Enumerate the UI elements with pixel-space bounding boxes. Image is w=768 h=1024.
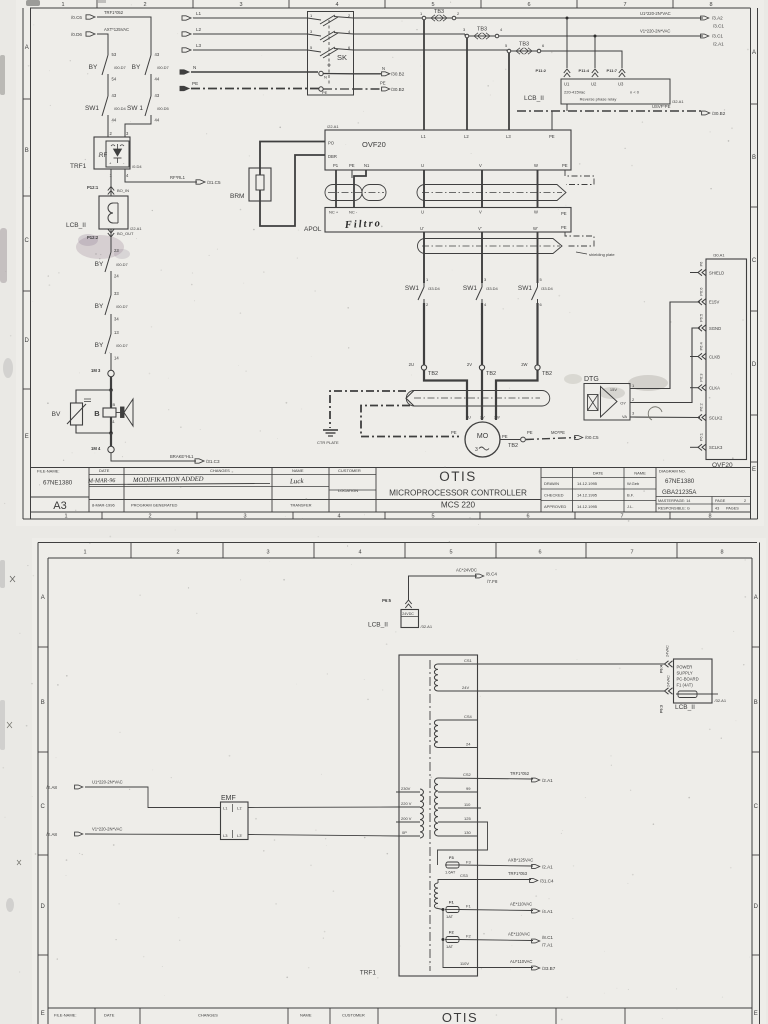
sheet1 top column ticks (96, 0, 98, 8)
scan smudge left edge dark streaks (0, 55, 5, 95)
svg-text:1.6AT: 1.6AT (445, 870, 456, 875)
tap 110 (438, 807, 481, 809)
svg-text:/00.D5: /00.D5 (157, 106, 170, 111)
svg-text:C: C (25, 238, 30, 244)
svg-text:99: 99 (466, 786, 471, 791)
sheet1 left row ticks (23, 98, 31, 100)
svg-text:/30.A1: /30.A1 (713, 253, 725, 258)
svg-text:PE: PE (349, 163, 355, 168)
svg-text:53: 53 (112, 52, 117, 57)
svg-text:/31.C5: /31.C5 (207, 180, 221, 185)
svg-text:U1: U1 (564, 82, 570, 87)
sheet1 right row ticks (751, 103, 758, 105)
svg-text:SCLK3: SCLK3 (709, 445, 723, 450)
svg-text:2W: 2W (521, 362, 527, 367)
wire BY to SW1 left (107, 78, 109, 92)
shield cable centerline right dash-dot (422, 192, 562, 194)
transformer core dash-dot (429, 660, 431, 971)
svg-text:BY: BY (95, 261, 104, 268)
svg-text:/2.A8: /2.A8 (46, 832, 57, 837)
wire (110, 275, 112, 291)
svg-text:V: V (479, 210, 482, 215)
svg-text:E15V: E15V (709, 300, 719, 305)
svg-text:BY: BY (89, 64, 98, 71)
wire N to SK contact (191, 71, 318, 73)
svg-text:BRAKE*HL1: BRAKE*HL1 (170, 454, 194, 459)
svg-text:2: 2 (148, 514, 151, 520)
svg-text:/0.D4: /0.D4 (132, 164, 142, 169)
svg-text:PAGES: PAGES (726, 507, 739, 511)
svg-text:44: 44 (155, 118, 160, 123)
svg-text:P12:2: P12:2 (87, 235, 99, 240)
svg-text:U3: U3 (618, 82, 624, 87)
svg-text:AE*110VAC: AE*110VAC (510, 902, 532, 907)
svg-text:MODIFIKATION ADDED: MODIFIKATION ADDED (132, 476, 204, 484)
svg-text:RF: RF (99, 152, 107, 159)
sheet1 border frame (30, 7, 751, 9)
svg-text:MO: MO (477, 433, 489, 440)
svg-text:220-415Vac: 220-415Vac (564, 90, 585, 95)
wire EMF L3' to primary 0P (248, 835, 399, 837)
SK PE contact (319, 87, 323, 91)
svg-text:SW1: SW1 (463, 285, 477, 292)
svg-text:L1: L1 (196, 11, 202, 16)
transformer secondary winding CS4-24 (434, 720, 438, 748)
svg-text:/30.B2: /30.B2 (391, 72, 405, 77)
svg-text:24VDC: 24VDC (402, 612, 414, 616)
svg-text:4: 4 (335, 2, 338, 8)
svg-text:/00.C5: /00.C5 (585, 435, 599, 440)
svg-text:V: V (479, 163, 482, 168)
svg-text:/8.C4: /8.C4 (486, 572, 497, 577)
wire DTG 15V to connector E15V (630, 302, 700, 389)
dash-dot PE wire under relay to /30.B2 (566, 104, 568, 111)
dash-dot PE wire to ground (330, 391, 406, 428)
svg-text:CS2: CS2 (463, 772, 472, 777)
svg-text:F2: F2 (449, 930, 454, 935)
svg-text:PE: PE (561, 211, 567, 216)
svg-text:OY: OY (620, 401, 626, 406)
svg-text:/30.B2: /30.B2 (391, 87, 405, 92)
svg-text:CUSTOMER: CUSTOMER (342, 1013, 365, 1018)
coil LCB_II box (99, 196, 128, 229)
svg-text:24: 24 (466, 742, 471, 747)
pen marks sheet2 margin (10, 576, 15, 582)
svg-text:33: 33 (114, 291, 119, 296)
connector OVF20 box right (706, 259, 747, 460)
svg-text:2: 2 (744, 499, 746, 503)
svg-text:PO: PO (328, 141, 335, 146)
svg-text:3: 3 (266, 550, 269, 556)
phase branch wire L3 down to OVF20 (508, 53, 510, 130)
svg-text:TB3: TB3 (434, 9, 444, 15)
svg-text:4: 4 (337, 514, 340, 520)
svg-text:2U: 2U (466, 416, 471, 420)
svg-text:FILE-NAME:: FILE-NAME: (54, 1013, 76, 1018)
sheet1 bottom column ticks (101, 512, 103, 519)
svg-text:/00.D7: /00.D7 (114, 65, 127, 70)
wire junction down to 110V out (443, 940, 533, 968)
sheet2 title block top line (48, 1007, 752, 1009)
wire TRF1*052 to BY contact (97, 17, 151, 51)
svg-text:E: E (25, 434, 29, 440)
transformer secondary winding CS2 taps (434, 778, 438, 836)
svg-text:B: B (752, 155, 756, 161)
svg-text:/7.A1: /7.A1 (542, 943, 553, 948)
svg-text:P1: P1 (333, 163, 339, 168)
svg-text:GBA21235A: GBA21235A (662, 489, 697, 496)
svg-text:P6:4: P6:4 (699, 341, 704, 350)
svg-text:44: 44 (155, 77, 160, 82)
svg-text:BRM: BRM (230, 193, 244, 200)
svg-text:Reverse phase relay: Reverse phase relay (580, 97, 617, 102)
svg-text:/0.D6: /0.D6 (71, 32, 82, 37)
bold wire P1 to APOL NC+ (335, 170, 337, 208)
wire CS1 to power supply (478, 663, 665, 665)
input arrow N bold (180, 70, 189, 74)
svg-text:TRF1*052: TRF1*052 (104, 10, 124, 15)
wire TRF1 pin1 down to LCB_II (110, 169, 112, 196)
input arrow L3 (182, 48, 191, 52)
svg-text:43: 43 (715, 507, 719, 511)
svg-text:PAGE: PAGE (715, 499, 726, 503)
svg-text:OVF20: OVF20 (362, 140, 386, 149)
wire PE stub OVF20 (351, 170, 353, 178)
wire SW1 to TRF1 pin2 (107, 119, 109, 137)
svg-text:2V: 2V (480, 416, 485, 420)
svg-text:/00.D4: /00.D4 (114, 106, 127, 111)
svg-text:L1: L1 (421, 134, 426, 139)
svg-text:/2.A8: /2.A8 (46, 785, 57, 790)
svg-text:L2: L2 (464, 134, 469, 139)
svg-text:/2.A1: /2.A1 (542, 778, 553, 783)
svg-text:N: N (193, 65, 196, 70)
svg-text:AE*110VAC: AE*110VAC (508, 932, 530, 937)
svg-text:DATE: DATE (99, 468, 110, 473)
shield pigtail APOL PE upper (565, 232, 594, 246)
svg-text:U: U (421, 210, 424, 215)
svg-text:L3: L3 (223, 833, 228, 838)
wire F1 to AE*110VAC arrow (459, 910, 533, 911)
svg-text:4: 4 (358, 550, 361, 556)
svg-text:/2.A1: /2.A1 (542, 865, 553, 870)
svg-text:2V: 2V (467, 362, 472, 367)
svg-text:/00.D7: /00.D7 (116, 343, 129, 348)
svg-text:7: 7 (630, 550, 633, 556)
transformer primary winding taps (420, 789, 424, 838)
dash-dot wire motor PE out (526, 438, 576, 440)
input arrow L2 (182, 32, 191, 36)
drive OVF20 box (325, 130, 571, 170)
svg-text:E: E (41, 1011, 45, 1017)
svg-text:RF*RL1: RF*RL1 (170, 175, 186, 180)
svg-text:SUPPLY: SUPPLY (677, 671, 693, 676)
svg-text:/32.A1: /32.A1 (715, 698, 727, 703)
svg-text:A: A (752, 50, 756, 56)
svg-text:6: 6 (526, 514, 529, 520)
svg-text:SHIELD: SHIELD (709, 270, 724, 275)
power tap LCB_II 24VDC box (401, 610, 419, 628)
svg-text:U: U (421, 163, 424, 168)
wire LCB_II down to BY chain (110, 229, 112, 248)
wire DTG VA to connector SCLK2 (630, 416, 700, 419)
svg-text:AXB*125VAC: AXB*125VAC (508, 858, 533, 863)
svg-text:RESPONSIBLE: G: RESPONSIBLE: G (658, 507, 690, 511)
svg-text:PE: PE (527, 430, 533, 435)
svg-text:BY: BY (95, 303, 104, 310)
svg-text:2U: 2U (409, 362, 414, 367)
svg-text:C: C (41, 804, 46, 810)
brake coil B (110, 390, 112, 408)
motor MO circle (465, 422, 500, 457)
svg-text:8: 8 (709, 2, 712, 8)
svg-text:14.12.1995: 14.12.1995 (577, 493, 598, 498)
svg-text:2W: 2W (494, 416, 500, 420)
bold wire W to APOL (537, 170, 539, 208)
node brake bottom (109, 431, 113, 435)
wire L2 to SK (193, 33, 308, 35)
svg-text:/00.D7: /00.D7 (157, 65, 170, 70)
svg-text:1: 1 (64, 514, 67, 520)
svg-text:MASTERPAGE: 14: MASTERPAGE: 14 (658, 499, 690, 503)
svg-text:LCB_II: LCB_II (675, 704, 695, 711)
svg-text:Luck: Luck (289, 477, 305, 486)
svg-text:24: 24 (114, 274, 119, 279)
svg-text:P11:7: P11:7 (607, 68, 618, 73)
svg-text:SGND: SGND (709, 326, 721, 331)
filter APOL box (325, 208, 571, 233)
wire PE out to /30.B2 dash-dot (354, 88, 382, 90)
shield pigtail OVF20 PE (565, 170, 594, 185)
svg-text:NC -: NC - (349, 210, 358, 215)
bold wire to terminal 1M4 (110, 433, 112, 446)
svg-text:W: W (534, 163, 538, 168)
svg-text:SW1: SW1 (518, 285, 532, 292)
svg-text:EMF: EMF (221, 795, 236, 802)
transformer secondary winding CS1-24V (434, 664, 438, 691)
wire L2 SK to TB3 fuse2 (354, 33, 466, 35)
svg-text:/33.D4: /33.D4 (486, 286, 499, 291)
svg-text:CS4: CS4 (464, 714, 473, 719)
wire BY to SW1 right (150, 78, 152, 92)
label shielding plate (576, 252, 587, 254)
svg-text:N: N (324, 75, 327, 80)
svg-text:B: B (94, 409, 100, 418)
svg-text:P6:5: P6:5 (382, 598, 392, 603)
svg-text:43: 43 (155, 52, 160, 57)
primary tap 230V (396, 791, 420, 793)
svg-text:FILE-NAME:: FILE-NAME: (37, 469, 59, 474)
svg-text:CS3: CS3 (460, 873, 469, 878)
svg-text:TB2: TB2 (486, 371, 496, 377)
input arrow PE bold dash-dot (180, 86, 189, 90)
svg-text:C: C (752, 258, 757, 264)
svg-text:F1 (4AT): F1 (4AT) (677, 683, 694, 688)
svg-text:P6:3: P6:3 (699, 373, 704, 382)
svg-text:CLKA: CLKA (709, 386, 720, 391)
svg-text:6: 6 (538, 550, 541, 556)
svg-text:200 V: 200 V (401, 816, 412, 821)
svg-text:1: 1 (61, 2, 64, 8)
svg-text:23: 23 (114, 248, 119, 253)
svg-text:TRF1: TRF1 (70, 163, 87, 170)
svg-text:43: 43 (155, 93, 160, 98)
svg-text:V1*220-2N*VAC: V1*220-2N*VAC (640, 29, 670, 34)
svg-text:230V: 230V (401, 786, 411, 791)
svg-text:V1*220-2N*VAC: V1*220-2N*VAC (92, 827, 122, 832)
svg-text:MO*PE: MO*PE (551, 430, 565, 435)
tap 99 (438, 791, 478, 793)
wire brake to BRAKE*HL1 arrow (111, 453, 196, 461)
svg-text:N1: N1 (364, 163, 370, 168)
relay LCB_II reverse phase relay box (561, 79, 670, 104)
svg-text:W.Geb: W.Geb (627, 481, 640, 486)
svg-text:0P: 0P (402, 830, 407, 835)
shield cable racetrack right group (417, 185, 566, 201)
svg-text:67NE1380: 67NE1380 (665, 478, 695, 485)
svg-text:SW1: SW1 (405, 285, 419, 292)
svg-text:B: B (41, 700, 45, 706)
svg-text:TRF1: TRF1 (360, 970, 377, 977)
svg-text:D: D (752, 362, 757, 368)
svg-text:TB2: TB2 (542, 371, 552, 377)
svg-text:PROGRAM GENERATED: PROGRAM GENERATED (131, 503, 177, 508)
bold wire U to APOL (423, 170, 425, 208)
wire L1 to SK (193, 17, 308, 19)
wire L1 SK to TB3 fuse1 (354, 17, 423, 19)
svg-text:/7.F8: /7.F8 (487, 579, 498, 584)
bold wire SW1 V to TB2 (481, 303, 483, 365)
svg-text:/31.C3: /31.C3 (206, 459, 220, 464)
svg-text:shielding plate: shielding plate (589, 252, 615, 257)
wire (110, 318, 112, 330)
rectifier RF inner bridge (106, 141, 129, 167)
transformer secondary winding CS3 (434, 883, 438, 909)
svg-text:PE: PE (380, 81, 386, 86)
wire fuse1 to right edge U1*220 (456, 17, 703, 19)
tap 130 (438, 835, 478, 837)
svg-text:F3: F3 (449, 855, 454, 860)
svg-text:E: E (754, 1011, 758, 1017)
svg-text:SCLK2: SCLK2 (709, 415, 723, 420)
svg-text:DBR: DBR (328, 154, 337, 159)
wire N out to /30.B2 (354, 73, 382, 75)
svg-text:43: 43 (112, 93, 117, 98)
svg-text:PE: PE (562, 163, 568, 168)
svg-text:14.12.1995: 14.12.1995 (577, 481, 598, 486)
wire LCB_II 24VDC up to AC*24VDC arrow (409, 576, 478, 600)
svg-text:APPROVED: APPROVED (544, 504, 566, 509)
svg-text:/32.A1: /32.A1 (421, 624, 433, 629)
sheet2 left row ticks (38, 646, 48, 648)
wire L3 SK to TB3 fuse3 (354, 49, 508, 51)
svg-text:U2: U2 (591, 82, 597, 87)
svg-text:14.12.1995: 14.12.1995 (577, 504, 598, 509)
svg-text:/33.D4: /33.D4 (428, 286, 441, 291)
svg-text:P6:6: P6:6 (699, 287, 704, 296)
svg-text:TRF1*052: TRF1*052 (510, 771, 530, 776)
svg-text:3: 3 (475, 447, 478, 453)
wire junction down to F2 (442, 910, 444, 940)
SK N contact (319, 71, 323, 75)
svg-text:V': V' (478, 226, 482, 231)
svg-text:TB3: TB3 (477, 27, 487, 33)
svg-text:2: 2 (143, 2, 146, 8)
terminal TB2 PE (521, 437, 526, 442)
svg-text:F1: F1 (449, 900, 454, 905)
svg-text:U': U' (420, 226, 424, 231)
wire BV to bottom node (76, 425, 111, 433)
svg-text:U1*220-2N*VAC: U1*220-2N*VAC (640, 11, 671, 16)
bold wire SW1 W to TB2 (536, 303, 538, 365)
wire EMF L1' to primary 220V (248, 806, 399, 809)
svg-text:1: 1 (83, 550, 86, 556)
svg-text:8: 8 (720, 550, 723, 556)
svg-text:54: 54 (112, 77, 117, 82)
connector pin SHIELD (698, 269, 702, 275)
svg-text:B.F.: B.F. (627, 493, 634, 498)
svg-text:AXT*125VAC: AXT*125VAC (104, 27, 129, 32)
svg-text:OTIS: OTIS (442, 1010, 478, 1024)
svg-text:CUSTOMER: CUSTOMER (338, 468, 361, 473)
shield cable centerline left dash-dot (328, 192, 384, 194)
bold wire U' down to SW1 (423, 232, 425, 283)
svg-text:PE: PE (322, 90, 328, 95)
svg-text:NC +: NC + (329, 210, 339, 215)
svg-text:MICROPROCESSOR CONTROLLER: MICROPROCESSOR CONTROLLER (389, 489, 527, 498)
wire F3 to AXB*125VAC arrow (459, 865, 533, 866)
svg-text:TB2: TB2 (508, 443, 518, 449)
sheet2 border frame (38, 542, 757, 544)
bold wire BRM to PO (260, 142, 325, 176)
svg-text:CTR PLATE: CTR PLATE (317, 440, 339, 445)
varistor BV (71, 403, 83, 425)
svg-text:TB3: TB3 (519, 42, 529, 48)
bold wire DBR loop to BRM bottom (260, 155, 325, 226)
svg-text:CHECKED: CHECKED (544, 493, 564, 498)
svg-text:220 V: 220 V (401, 801, 412, 806)
svg-text:P6: P6 (699, 261, 704, 267)
svg-text:/8.C1: /8.C1 (542, 935, 553, 940)
svg-text:A: A (41, 595, 45, 601)
wire to terminal 1M3 (110, 357, 112, 370)
svg-text:M-MAR-96: M-MAR-96 (87, 478, 115, 484)
svg-text:LCB_II: LCB_II (66, 222, 86, 229)
svg-text:/31.C4: /31.C4 (540, 879, 554, 884)
svg-text:P6:1: P6:1 (699, 432, 704, 441)
svg-text:34: 34 (114, 317, 119, 322)
svg-text:F2: F2 (466, 934, 471, 939)
svg-text:DATE: DATE (104, 1013, 115, 1018)
svg-text:B: B (113, 402, 116, 407)
bold wire W' down to SW1 (537, 232, 539, 283)
primary tap 220V (399, 806, 420, 808)
svg-text:/00.D7: /00.D7 (116, 262, 129, 267)
svg-text:AC*24VDC: AC*24VDC (456, 568, 477, 573)
svg-text:7: 7 (620, 514, 623, 520)
transformer TRF1 outer box (399, 655, 478, 976)
svg-text:E: E (752, 467, 756, 473)
svg-text:7: 7 (623, 2, 626, 8)
resistor BRM box (249, 168, 271, 201)
svg-text:24VAC: 24VAC (666, 645, 670, 657)
svg-text:/00.D7: /00.D7 (116, 304, 129, 309)
svg-text:L3: L3 (506, 134, 511, 139)
svg-text:/3.A2: /3.A2 (712, 16, 723, 21)
sheet2 top ticks (130, 543, 132, 559)
wire 24V to power supply (478, 690, 665, 692)
svg-text:8: 8 (708, 514, 711, 520)
